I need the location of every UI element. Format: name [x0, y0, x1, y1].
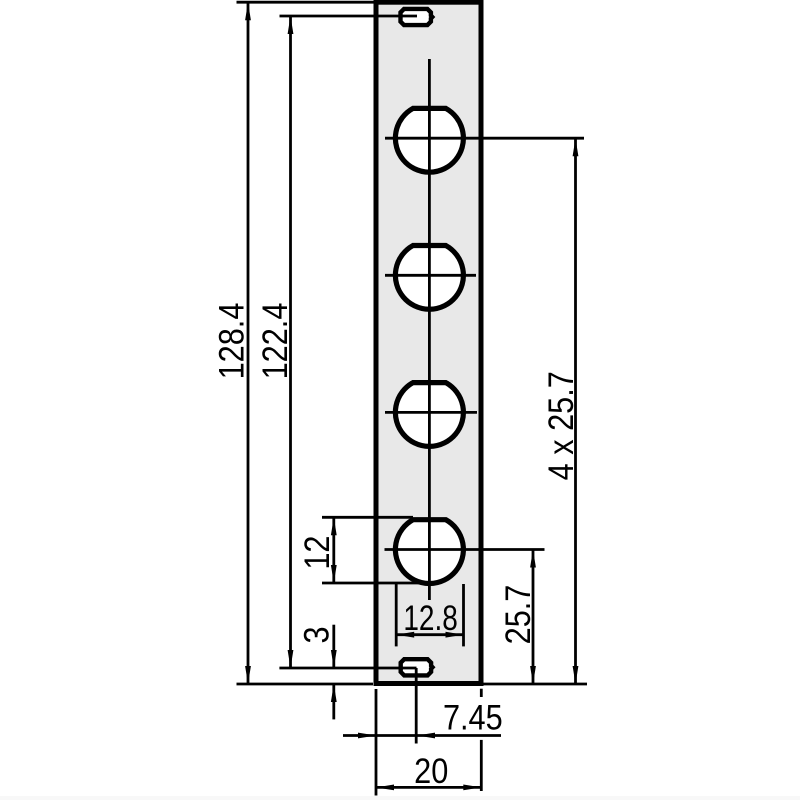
svg-text:25.7: 25.7 — [498, 585, 537, 645]
svg-text:122.4: 122.4 — [255, 303, 294, 380]
svg-text:12.8: 12.8 — [403, 598, 457, 638]
svg-text:20: 20 — [414, 751, 448, 790]
svg-text:12: 12 — [297, 536, 336, 570]
svg-text:4 x 25.7: 4 x 25.7 — [541, 371, 580, 480]
svg-text:3: 3 — [296, 626, 335, 643]
svg-text:7.45: 7.45 — [443, 698, 503, 737]
svg-text:128.4: 128.4 — [211, 303, 250, 380]
